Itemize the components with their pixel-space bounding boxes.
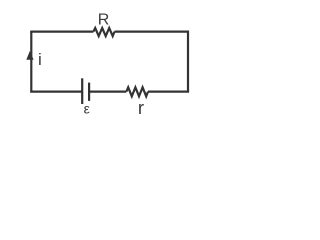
wire top-right segment [115,31,189,33]
current arrow head [26,51,33,60]
svg-text:ε: ε [84,100,90,116]
svg-text:R: R [98,12,110,29]
svg-text:r: r [138,97,144,118]
wire bottom-left segment [30,90,82,92]
wire bottom-right segment [148,90,189,92]
resistor r [126,87,148,96]
battery cell plate short (negative) [88,83,90,101]
battery cell plate long (positive) [81,78,83,104]
wire right vertical [187,31,189,92]
wire battery-to-resistor segment [89,90,126,92]
resistor R [93,28,114,36]
svg-text:i: i [38,50,42,69]
wire top-left segment [30,31,93,33]
wire left vertical [30,32,32,92]
